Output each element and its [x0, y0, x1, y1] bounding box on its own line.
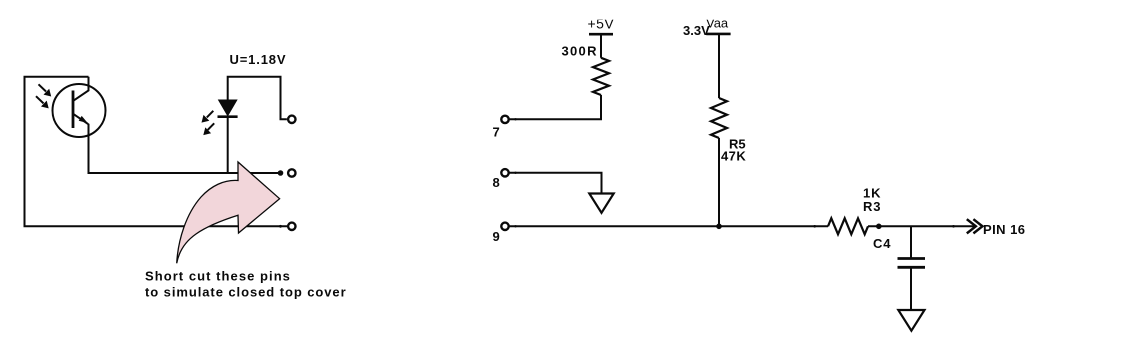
svg-text:PIN 16: PIN 16 [983, 222, 1025, 237]
terminal pin middle [288, 169, 295, 176]
wire: pin 9 to R3 [509, 225, 828, 227]
junction dot middle pin [278, 170, 284, 176]
node nub [813, 225, 816, 228]
ground (pin 8) [589, 194, 613, 213]
wire: pin 8 to ground [509, 173, 601, 194]
node nub bottom pin [279, 225, 282, 228]
wire: 300R down and left to pin 7 [509, 95, 601, 119]
svg-text:U=1.18V: U=1.18V [230, 52, 287, 67]
svg-text:C4: C4 [873, 236, 891, 251]
resistor 300R (vertical zigzag) [593, 58, 609, 95]
junction node (C4 branch) [876, 224, 882, 230]
node nub pin7 wire [514, 118, 516, 120]
white clip over rail label tops [580, 0, 625, 20]
wire: R3 to chevron [868, 225, 975, 227]
wire: emitter down then right to middle pin [89, 124, 281, 173]
svg-text:to simulate closed top cover: to simulate closed top cover [145, 284, 347, 299]
svg-text:9: 9 [493, 229, 500, 244]
capacitor C4 plates [898, 257, 926, 260]
phototransistor Q1 circle [53, 84, 106, 137]
wire: LED anode rail up/right/down to top pin [228, 77, 287, 120]
ground (C4) [898, 310, 924, 331]
light arrow into transistor 1 [39, 84, 47, 91]
wire: node down to C4 [910, 226, 912, 258]
node nub pin9 wire [514, 225, 516, 227]
wire: LED cathode down to middle wire [227, 117, 229, 173]
resistor R5 (vertical zigzag) [711, 98, 727, 138]
terminal pin bottom [288, 223, 295, 230]
transistor base bar [72, 91, 75, 129]
wire: Vaa down to R5 [718, 34, 720, 98]
node nub pin8 wire [514, 172, 516, 174]
callout arrow (pink) [177, 162, 280, 263]
wire: +5V to 300R [600, 34, 602, 58]
transistor emitter with arrowhead [73, 114, 88, 124]
wire: left loop from phototransistor collector to bottom pin [25, 77, 288, 227]
light arrow into transistor 2 [36, 96, 44, 103]
node nub [952, 225, 955, 228]
Vaa rail bar [706, 33, 730, 36]
svg-text:3.3V: 3.3V [683, 23, 710, 38]
LED D1 triangle [219, 100, 237, 116]
terminal pin 7 [501, 116, 508, 123]
svg-text:8: 8 [493, 175, 500, 190]
wire: R5 down to node on pin9 line [718, 138, 720, 226]
+5V rail bar [589, 33, 613, 36]
svg-text:Short cut these pins: Short cut these pins [145, 268, 291, 283]
LED emission arrow 2 [208, 123, 215, 130]
junction node (R5 to pin9 line) [716, 224, 722, 230]
LED emission arrow 1 [207, 111, 214, 118]
svg-text:7: 7 [493, 125, 500, 140]
svg-text:47K: 47K [721, 149, 746, 164]
svg-text:300R: 300R [562, 44, 598, 59]
LED cathode bar [218, 115, 238, 118]
resistor R3 (horizontal zigzag) [828, 218, 868, 234]
terminal pin top (to LED) [288, 116, 295, 123]
chevron output marker [967, 219, 976, 233]
svg-text:R3: R3 [863, 199, 881, 214]
terminal pin 8 [501, 169, 508, 176]
wire: C4 to ground [910, 267, 912, 310]
transistor collector [74, 77, 89, 101]
terminal pin 9 [501, 223, 508, 230]
